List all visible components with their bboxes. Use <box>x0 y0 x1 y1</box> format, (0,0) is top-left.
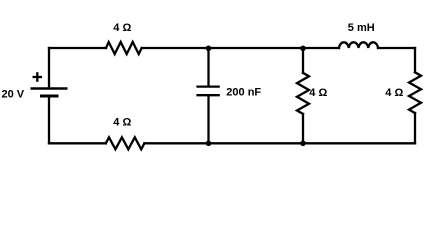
capacitor branch wire lower (bottom plate down to node C) <box>207 97 209 144</box>
wire right vertical lower (right resistor to bottom-right corner) <box>414 113 416 143</box>
capacitor 200 nF top plate <box>196 85 219 87</box>
resistor branch wire lower (middle resistor to node D) <box>302 114 304 143</box>
wire top (node A to node B) <box>209 47 304 49</box>
battery positive long plate <box>31 87 68 89</box>
svg-text:4 Ω: 4 Ω <box>309 87 327 99</box>
wire right vertical upper (corner down to right resistor) <box>414 48 416 72</box>
svg-text:4 Ω: 4 Ω <box>113 22 131 34</box>
junction node A (top of capacitor branch) <box>206 46 212 52</box>
resistor 4-ohm bottom zigzag <box>106 137 145 149</box>
wire top-right (inductor to top-right corner) <box>378 47 415 49</box>
svg-text:4 Ω: 4 Ω <box>385 87 403 99</box>
resistor branch wire upper (node B down to middle resistor) <box>302 48 304 73</box>
capacitor branch wire upper (node A down to top plate) <box>207 48 209 85</box>
svg-text:5 mH: 5 mH <box>348 22 375 34</box>
wire top (node B to inductor) <box>303 47 339 49</box>
inductor 5 mH (4 humps) <box>339 42 378 48</box>
svg-text:200 nF: 200 nF <box>226 86 261 98</box>
junction node D (bottom of middle resistor branch) <box>300 141 306 147</box>
resistor 4-ohm right zigzag <box>409 72 421 113</box>
wire bottom (node D to node C) <box>209 142 304 144</box>
wire bottom-left (bottom resistor to battery bottom) <box>49 142 106 144</box>
wire top-left horizontal (battery top to resistor R-top) <box>49 47 106 49</box>
svg-text:4 Ω: 4 Ω <box>113 117 131 129</box>
junction node B (top of middle resistor branch) <box>300 46 306 52</box>
wire left vertical upper (top wire down to battery + plate) <box>48 48 50 87</box>
resistor 4-ohm top zigzag <box>106 42 142 54</box>
wire bottom (node C to bottom resistor) <box>144 142 208 144</box>
wire top (R-top to node A) <box>142 47 209 49</box>
battery plus polarity sign <box>33 72 43 82</box>
capacitor 200 nF bottom plate <box>196 94 219 96</box>
junction node C (bottom of capacitor branch) <box>206 141 212 147</box>
resistor 4-ohm middle zigzag <box>297 73 309 114</box>
wire left vertical lower (battery - plate down to bottom wire) <box>48 97 50 143</box>
wire bottom-right (corner to node D) <box>303 142 415 144</box>
svg-text:20 V: 20 V <box>2 88 25 100</box>
battery negative short plate <box>40 95 59 98</box>
